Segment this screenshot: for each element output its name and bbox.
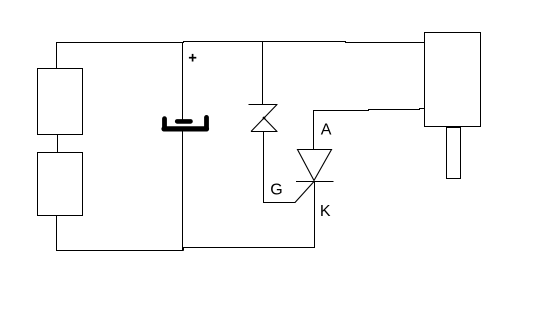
label K xyxy=(320,203,331,220)
svg-text:K: K xyxy=(320,203,331,220)
wire gate diagonal xyxy=(295,182,314,203)
wire diac branch top xyxy=(262,42,264,105)
wire SCR cathode down xyxy=(314,182,316,248)
load LP1 (large rectangle) xyxy=(425,33,481,127)
resistor R1 (upper left rectangle) xyxy=(38,69,83,135)
svg-text:G: G xyxy=(270,182,282,199)
wire battery branch top xyxy=(182,43,184,121)
wire battery branch bottom xyxy=(182,132,184,251)
svg-text:A: A xyxy=(321,122,332,139)
label A xyxy=(321,122,332,139)
diode D1 (diac-style symbol) xyxy=(249,105,278,132)
label + polarity xyxy=(189,54,196,62)
wire SCR anode xyxy=(314,109,425,150)
wire R2 bottom to bottom rail xyxy=(57,216,184,251)
wire bottom rail right section xyxy=(184,248,316,251)
thyristor Q1 (SCR triangle and cathode bar) xyxy=(296,150,334,182)
battery B1 (thick hand-drawn symbol) xyxy=(164,117,207,128)
wire between R1 and R2 xyxy=(57,135,59,153)
label G xyxy=(270,182,282,199)
wire R1 top to top rail xyxy=(56,42,58,69)
resistor R2 (lower left rectangle) xyxy=(38,153,83,216)
wire diac to gate corner xyxy=(264,132,296,203)
load base (small rectangle below) xyxy=(447,128,461,179)
wire top rail xyxy=(57,42,425,43)
